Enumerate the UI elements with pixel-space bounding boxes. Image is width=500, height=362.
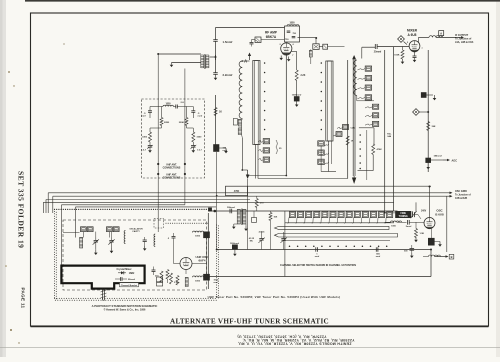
wire (358, 155, 374, 171)
wire (298, 38, 317, 44)
pin labels (407, 42, 424, 50)
wire (258, 178, 348, 180)
svg-text:L9A, L9B & C1R.: L9A, L9B & C1R. (455, 41, 474, 44)
wire (256, 145, 259, 179)
switch wafer S1 (253, 61, 260, 145)
ground (438, 242, 442, 247)
capacitor 750 a (287, 31, 297, 35)
paper specks (5, 43, 64, 343)
svg-text:1000: 1000 (165, 104, 171, 106)
wire cathode (285, 54, 287, 175)
wire (46, 199, 250, 201)
ground strap (101, 289, 107, 301)
capacitor 5mmf series (406, 220, 424, 228)
ground (279, 56, 283, 61)
shaft line 3 (283, 240, 390, 242)
capacitor 180mmf (426, 158, 443, 163)
svg-text:Crystal Mixer: Crystal Mixer (116, 268, 131, 271)
antenna transformer T1 (201, 54, 209, 69)
resistor 270 uhf (155, 271, 163, 282)
svg-text:CAVITY: CAVITY (132, 230, 140, 233)
resistor 10K trap (269, 211, 278, 250)
contact dots S3 (359, 134, 361, 169)
ground (214, 74, 218, 80)
coil output B (423, 255, 441, 257)
label VHF ANT CONNECTIONS (163, 163, 181, 169)
ground (219, 148, 228, 153)
tap box L7b (358, 76, 372, 81)
coil and junction (206, 275, 219, 284)
capacitor 1.5mmf (213, 28, 232, 45)
sidebar text PAGE 11 (20, 288, 25, 309)
svg-text:mmf: mmf (214, 282, 219, 284)
upside-down model list (237, 334, 354, 345)
wire long vertical (347, 60, 349, 179)
contact dots S1 (264, 62, 266, 130)
page top edge (25, 0, 500, 2)
wire (319, 46, 344, 48)
svg-text:Channel Bracket: Channel Bracket (121, 284, 138, 287)
capacitor 1000mmf feedthrough2 (230, 243, 239, 256)
interstage box (313, 44, 319, 50)
osc socket shading (425, 227, 434, 229)
wire UHF column (207, 213, 209, 289)
wire bus 1 (384, 50, 386, 211)
label MIXER A 6U8 (407, 29, 418, 37)
variable capacitor fine tuning (411, 211, 421, 219)
fine tuning label (dark) (396, 211, 412, 218)
capacitor 500mmf (227, 207, 235, 214)
IF takeoff box A (439, 31, 444, 38)
svg-text:1.5mmf: 1.5mmf (223, 40, 233, 44)
tube V2 mixer (409, 41, 420, 52)
wire (45, 200, 47, 214)
coil L3 winding a (238, 120, 241, 127)
contact dots S2 (321, 62, 323, 130)
svg-text:CHANNEL SELECTOR SWITCH SHOWN: CHANNEL SELECTOR SWITCH SHOWN IN CHANNEL… (280, 264, 356, 267)
capacitor .5mmf right (191, 107, 202, 119)
svg-text:C2B & R2B: C2B & R2B (455, 198, 467, 200)
pin labels (279, 44, 294, 57)
tap box L2a (259, 139, 270, 144)
tube cathode cap (413, 51, 417, 62)
wire to osc grid 2 (53, 195, 453, 198)
svg-text:1K: 1K (219, 112, 222, 114)
tap box L7d (358, 95, 372, 100)
IF output coil (429, 36, 443, 38)
border frame (31, 13, 489, 327)
capacitor 500mmf osc (404, 245, 414, 253)
node UHF ANT terminals (157, 173, 186, 175)
svg-text:1000mmf: 1000mmf (230, 243, 239, 245)
ground (232, 224, 237, 229)
capacitor 1000mmf feedthrough (292, 95, 302, 102)
trimmer capacitor left (141, 142, 153, 152)
trimmer C1B b (280, 236, 286, 244)
feedthrough D dark (204, 274, 210, 280)
svg-text:B 6U8: B 6U8 (435, 212, 444, 216)
wire (385, 212, 396, 214)
svg-text:Y2257R, RU, V, (CH. 16Y20, 16Y: Y2257R, RU, V, (CH. 16Y20, 16Y20U, 17Y23… (237, 334, 326, 338)
svg-text:A: A (440, 32, 442, 36)
tap box L7e (365, 104, 379, 109)
capacitor d (143, 237, 147, 251)
test point diamond O (413, 109, 429, 116)
resistor 270 (255, 196, 264, 211)
ground (410, 253, 414, 258)
switch shaft bar 2 (275, 234, 398, 238)
label OSC GRID (455, 190, 471, 200)
ground (433, 95, 437, 100)
shield terminal square (208, 208, 211, 211)
ground (287, 57, 291, 62)
coil winding UHF a (80, 238, 83, 249)
wire (185, 270, 187, 274)
wire (215, 41, 217, 72)
wire (75, 207, 77, 238)
resistor 2.2K osc (166, 270, 169, 284)
wire bus 2 (393, 47, 395, 211)
resistor 100K (394, 47, 404, 60)
coil 1000 ft (385, 221, 407, 228)
resistor 220K right (179, 107, 194, 129)
feedthrough box (421, 93, 433, 98)
svg-text:1.5-7: 1.5-7 (197, 150, 203, 152)
label Crystal Mixer (116, 268, 131, 271)
shaft dots (289, 246, 388, 248)
ground (244, 224, 248, 231)
svg-text:1.5-7: 1.5-7 (141, 150, 147, 152)
trap transformer T2 (237, 209, 246, 226)
tap box L5a (318, 141, 329, 146)
svg-text:1000: 1000 (289, 23, 295, 25)
feedthrough 1000 dark (428, 238, 440, 245)
resistor 2.2K (295, 70, 305, 81)
wire (172, 62, 202, 64)
svg-text:SET 335 FOLDER 19: SET 335 FOLDER 19 (17, 171, 26, 248)
title ALTERNATE VHF-UHF TUNER SCHEMATIC (170, 318, 329, 326)
node VHF ANT terminals (157, 163, 186, 165)
svg-text:© Howard W. Sams & Co., Inc. 1: © Howard W. Sams & Co., Inc. 1956 (104, 309, 146, 312)
ground (192, 147, 196, 153)
wire (446, 196, 448, 252)
ground (414, 237, 418, 242)
capacitor 2.2mmf top (176, 102, 194, 109)
svg-text:1000: 1000 (195, 236, 201, 238)
tuning arrow up (242, 53, 251, 62)
capacitor 1mmf (315, 247, 320, 258)
wire (174, 241, 181, 264)
ground (94, 250, 98, 255)
svg-text:25mmf: 25mmf (374, 51, 382, 53)
svg-text:A PHOTOFACT STANDARD NOTATION: A PHOTOFACT STANDARD NOTATION SCHEMATIC (92, 304, 158, 308)
wire (430, 229, 432, 239)
wire mixer grid bus (208, 210, 397, 212)
wire wiper drop (247, 179, 249, 250)
svg-text:ALTERNATE VHF-UHF TUNER SCHEMA: ALTERNATE VHF-UHF TUNER SCHEMATIC (170, 318, 329, 326)
label UHF OSC 6AF4 (195, 255, 209, 263)
label RF AMP 6BK7A (265, 31, 278, 39)
switch wafer S2 (326, 61, 333, 141)
wire (284, 211, 286, 277)
capacitor 750 b (285, 37, 295, 41)
svg-text:TUNING: TUNING (399, 215, 408, 218)
footer part number note (208, 295, 341, 299)
svg-text:3300: 3300 (142, 137, 148, 139)
svg-text:AGC: AGC (452, 159, 458, 162)
antenna terminal box (dashed) (142, 99, 205, 178)
label A (244, 59, 247, 64)
capacitor .5mmf osc (167, 233, 175, 241)
bracket 25 (276, 140, 282, 154)
capacitor 100mmf (214, 145, 228, 153)
trap slug box (252, 211, 257, 222)
wire (261, 39, 285, 41)
wire plate (419, 37, 430, 42)
wire (47, 193, 49, 213)
svg-text:mmf: mmf (315, 256, 320, 258)
tap box L2c (259, 157, 270, 162)
wire (76, 206, 217, 208)
svg-text:22mmf: 22mmf (128, 279, 135, 281)
AGC arrow (443, 159, 457, 163)
capacitor uhf small (152, 267, 156, 276)
svg-text:140V: 140V (421, 210, 427, 213)
wire grid (362, 47, 376, 58)
svg-text:UHF Tuner Part No. 5308P8; VHF: UHF Tuner Part No. 5308P8; VHF Tuner Par… (208, 295, 341, 299)
svg-text:100K: 100K (394, 55, 400, 57)
tap box C2B (333, 132, 342, 137)
svg-text:1000: 1000 (195, 281, 201, 283)
resistor 470K (372, 144, 382, 155)
IF output arrow (436, 36, 464, 39)
wire (248, 175, 287, 177)
wire (296, 81, 298, 97)
capacitor 2.2mmf (213, 73, 232, 78)
wire (321, 141, 336, 172)
svg-text:To Junction of: To Junction of (455, 194, 471, 197)
resistor 39K (427, 122, 436, 131)
tap box L7a (358, 66, 372, 71)
coil winding osc (185, 278, 188, 287)
tap box C2A (337, 125, 355, 130)
label IF OUTPUT (455, 34, 474, 44)
wire VHF lead (157, 54, 159, 232)
wire (331, 141, 333, 164)
ground (110, 248, 114, 253)
tap box pair a (81, 227, 94, 232)
wire bottom bus (217, 249, 431, 251)
svg-text:4.5-25: 4.5-25 (259, 231, 266, 234)
svg-text:C2A: C2A (351, 127, 356, 130)
diode CR1 1N82 (118, 271, 135, 275)
resistor 4.7K osc (176, 276, 179, 286)
tap box L7f (365, 113, 379, 118)
variable capacitor a (93, 238, 99, 250)
svg-text:3300: 3300 (197, 137, 203, 139)
svg-text:OSCILLATOR: OSCILLATOR (129, 227, 143, 230)
coil UHF c (124, 231, 125, 244)
B+ wire (216, 27, 285, 29)
svg-text:750-: 750- (387, 134, 392, 136)
tube V4 oscillator (424, 218, 435, 229)
coil 1000 osc top (193, 231, 204, 237)
svg-text:B: B (451, 255, 453, 259)
ground (295, 101, 299, 107)
wire mixer column (427, 50, 429, 172)
wire (216, 152, 218, 250)
trimmer C1B a (258, 231, 265, 246)
trimmer capacitor right (190, 142, 202, 152)
ground (401, 59, 405, 64)
label channel selector note (280, 264, 356, 267)
node (214, 210, 217, 213)
channel bracket label (120, 283, 139, 287)
resistor 3300 left (142, 128, 151, 142)
slug box (233, 119, 237, 126)
wire (43, 201, 393, 203)
label A PHOTOFACT STANDARD NOTATION SCHEMATIC (92, 304, 158, 312)
svg-text:5mmf: 5mmf (406, 226, 412, 228)
wire plate osc (429, 187, 431, 218)
svg-text:mmf: mmf (141, 116, 146, 118)
tube V1 RF amplifier (281, 43, 292, 54)
interstage coil (309, 49, 312, 64)
coil UHF e (154, 234, 155, 247)
wire to osc grid 1 (48, 192, 452, 195)
tube socket shading (282, 53, 292, 56)
tap box L5b (318, 150, 329, 155)
capacitor 22mmf (115, 277, 135, 281)
wire (241, 138, 243, 170)
small boxes fine tuning uhf (157, 277, 163, 286)
wire (262, 231, 284, 250)
tap box L7g (365, 121, 379, 126)
wire (42, 202, 44, 213)
wire right box side (430, 250, 432, 277)
capacitor .5mmf left (141, 107, 152, 119)
coupling box (323, 44, 328, 49)
label 41.25 MC (249, 237, 255, 243)
chassis return bottom (208, 276, 431, 278)
capacitor 25mmf (374, 44, 382, 53)
label UHF ANT CONNECTIONS (163, 173, 181, 179)
capacitor 560mmf (376, 247, 381, 258)
wire ladder bus (366, 130, 368, 180)
wire (83, 232, 109, 238)
svg-text:A 6U8: A 6U8 (408, 33, 417, 37)
wire (210, 55, 216, 60)
arrow B (435, 254, 454, 259)
wire (52, 196, 54, 213)
channel coil boxes 2-13 (287, 212, 393, 224)
plate coil box (285, 23, 300, 43)
svg-text:CONNECTIONS: CONNECTIONS (163, 176, 181, 179)
svg-text:OSC GRID: OSC GRID (455, 190, 467, 193)
svg-text:10K: 10K (274, 216, 278, 218)
box 47K (226, 186, 248, 195)
resistor 1K (214, 108, 222, 116)
capacitor input (250, 40, 256, 47)
switch shaft bar 1 (275, 226, 390, 229)
wire heater stub (292, 52, 297, 71)
svg-text:220K: 220K (179, 122, 185, 124)
svg-text:220K: 220K (164, 122, 170, 124)
svg-text:6AF4: 6AF4 (198, 259, 205, 263)
ground (426, 163, 430, 169)
tap box L7c (358, 85, 372, 90)
UHF tuner dashed box (63, 220, 207, 290)
coil L7 loops (354, 60, 374, 101)
wire (63, 232, 112, 238)
tap box L5c (318, 159, 329, 164)
wiper arrow down (242, 170, 249, 179)
crystal mixer highlight box (thick) (61, 266, 144, 289)
tap box pair b (107, 227, 120, 232)
feedthrough C dark (204, 232, 210, 238)
tap box L2b (259, 148, 270, 153)
wire (359, 128, 374, 144)
variable capacitor b (108, 238, 114, 249)
shaft arrow up (352, 55, 356, 59)
svg-text:CONNECTIONS: CONNECTIONS (163, 166, 181, 169)
test point diamond M (398, 36, 407, 45)
svg-text:470K: 470K (377, 148, 383, 151)
wiper arrow down S3 (352, 176, 356, 184)
wire UHF lead (184, 69, 186, 205)
svg-text:PAGE 11: PAGE 11 (20, 288, 25, 309)
svg-text:180mmf: 180mmf (434, 156, 443, 158)
wire (215, 95, 217, 145)
label 140V (421, 210, 427, 213)
lead grommet (dashed) (154, 219, 164, 229)
svg-text:mmf: mmf (376, 256, 381, 258)
bottom scan line (0, 346, 500, 348)
ground (148, 147, 152, 153)
wire (158, 53, 201, 55)
UHF tuner shield (dotted border) (54, 209, 219, 301)
mixer socket shading (410, 50, 419, 53)
resistor 1K (346, 136, 354, 145)
svg-text:mmf: mmf (198, 116, 203, 118)
label oscillator cavity (129, 227, 143, 233)
sidebar text SET 335 FOLDER 19 (17, 171, 26, 248)
svg-text:39K: 39K (432, 126, 436, 128)
channel coil L7 shaft (353, 59, 355, 176)
svg-text:1N82: 1N82 (129, 273, 135, 275)
ground (170, 63, 174, 68)
svg-text:2.2K: 2.2K (301, 75, 306, 77)
wire (62, 204, 185, 206)
trimmer box (255, 37, 261, 43)
svg-text:6BK7A: 6BK7A (266, 35, 277, 39)
coil 1000 osc bottom (193, 276, 204, 283)
wire top of switch box (248, 185, 432, 187)
coil L3 (239, 60, 243, 118)
label 180mmf (434, 156, 443, 158)
wire (377, 46, 409, 48)
wire (61, 205, 63, 266)
resistor 3.9K uhf (170, 273, 179, 284)
svg-text:1.5K: 1.5K (420, 233, 425, 235)
bus wire (285, 222, 394, 224)
wire (415, 202, 417, 212)
coil L3 winding b (238, 128, 241, 135)
svg-text:500mmf: 500mmf (227, 207, 235, 209)
coil 1000 (150, 104, 176, 107)
resistor 220K left (150, 107, 170, 129)
resistor 3300 right (192, 128, 202, 142)
